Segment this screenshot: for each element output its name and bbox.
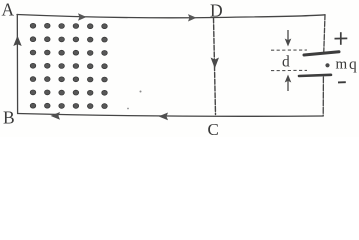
label - (bottom plate polarity) (338, 81, 346, 83)
svg-text:A: A (2, 0, 15, 20)
gap dimension up arrow (285, 75, 292, 92)
charged particle dot (325, 63, 329, 67)
wire left edge A-B (16, 15, 18, 114)
wire right edge bottom (bottom plate to corner) (322, 77, 324, 116)
gap dimension dashed line (bottom) (271, 69, 307, 71)
arrow on top wire (right, pointing right) (188, 14, 197, 21)
speck near bottom row (127, 108, 129, 110)
arrow on top wire (left, pointing right) (78, 13, 87, 20)
svg-text:d: d (282, 54, 290, 71)
wire bottom edge B-C-right (18, 114, 323, 117)
arrow on D-C conductor (pointing down) (211, 58, 219, 69)
gap dimension down arrow (285, 30, 292, 47)
arrow on bottom wire (left, pointing left) (51, 112, 61, 120)
capacitor bottom plate (299, 75, 331, 76)
wire D-C vertical conductor (214, 18, 216, 115)
label + (top plate polarity) (335, 32, 348, 45)
wire right edge top (corner to top plate) (324, 15, 325, 52)
wire top edge A-D-right (17, 15, 325, 18)
arrow on bottom wire (middle, pointing left) (159, 113, 169, 121)
arrow on left wire (pointing up) (13, 36, 21, 47)
magnetic field dots grid (6 x 7) (30, 23, 107, 108)
svg-text:B: B (3, 108, 15, 128)
svg-text:D: D (210, 1, 223, 21)
svg-text:q: q (349, 56, 357, 73)
speck near field region (140, 91, 142, 93)
svg-text:m: m (336, 57, 348, 73)
svg-text:C: C (208, 120, 219, 137)
gap dimension dashed line (top) (271, 49, 307, 51)
capacitor top plate (304, 52, 339, 55)
